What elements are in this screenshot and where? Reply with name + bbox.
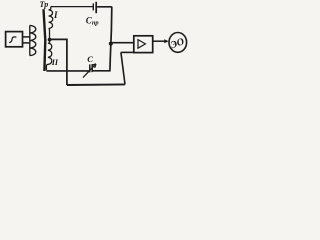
wire riser to amplifier: [121, 52, 125, 84]
wire midpoint branch: [50, 39, 67, 85]
secondary winding I: [49, 7, 53, 40]
capacitor Cpr plate 1: [92, 3, 94, 10]
wire winding II to capacitor C: [46, 70, 89, 72]
svg-text:I: I: [53, 10, 58, 20]
transformer Tp primary winding: [30, 25, 36, 55]
svg-text:С: С: [87, 54, 93, 64]
wire node A to amplifier input: [111, 42, 134, 44]
svg-text:Тр: Тр: [40, 0, 49, 9]
node A vertical wire: [110, 7, 112, 71]
secondary winding II: [46, 40, 51, 71]
junction dot windings midpoint: [48, 38, 52, 42]
generator G box: [6, 32, 23, 47]
amplifier triangle: [138, 40, 145, 49]
amplifier U1 box: [134, 36, 153, 53]
bottom wire: [67, 83, 125, 86]
node A junction dot: [109, 42, 113, 46]
wire amplifier output: [153, 40, 167, 42]
generator waveform symbol: [9, 37, 16, 43]
capacitor Cpr plate 2: [95, 2, 97, 13]
wire generator lower lead: [23, 42, 31, 44]
variable capacitor arrow: [83, 64, 96, 78]
wire Cpr to corner: [97, 6, 112, 8]
arrowhead to indicator: [164, 39, 168, 43]
transformer core: [44, 9, 46, 71]
oscilloscope EO circle: [169, 33, 187, 53]
wire lower amplifier lead: [121, 51, 134, 53]
wire capacitor C to node A: [93, 70, 111, 72]
wire generator upper lead: [23, 36, 31, 38]
wire top lead to Cpr: [51, 6, 93, 8]
svg-text:II: II: [51, 58, 59, 67]
capacitor C plate 2: [91, 64, 93, 72]
capacitor C plate 1: [89, 64, 91, 72]
